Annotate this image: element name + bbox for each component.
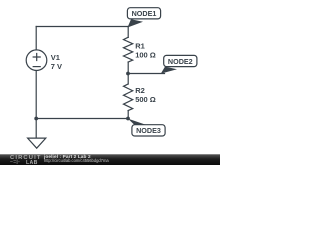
wire bottom horizontal: [36, 118, 128, 120]
V1 minus sign: [33, 66, 40, 68]
wire R2 to bottom rail: [127, 111, 129, 119]
svg-text:R1: R1: [135, 41, 145, 50]
junction ground node: [34, 117, 38, 121]
V1 plus sign: [33, 54, 40, 61]
wire left top (source to top rail): [35, 27, 37, 50]
svg-text:V1: V1: [51, 53, 60, 62]
watermark bar: [0, 154, 220, 165]
svg-text:NODE2: NODE2: [168, 57, 193, 66]
svg-text:500 Ω: 500 Ω: [135, 95, 156, 104]
svg-text:NODE3: NODE3: [136, 126, 161, 135]
credit line: [44, 154, 91, 159]
wire top horizontal: [36, 26, 128, 28]
ground: [28, 138, 46, 148]
voltage source V1: [26, 50, 47, 71]
junction node B (R2/bottom rail): [126, 117, 130, 121]
junction node A (R1/R2/NODE2): [126, 72, 130, 76]
CircuitLab logo: [10, 155, 42, 161]
url line: [44, 158, 109, 163]
wire node A down to R2: [127, 74, 129, 85]
resistor R2: [124, 84, 133, 111]
node NODE3 flag: [128, 119, 165, 136]
wire right top (NODE1 corner down to R1): [127, 27, 129, 38]
wire R1 to node A: [127, 62, 129, 73]
svg-text:R2: R2: [135, 86, 145, 95]
svg-text:100 Ω: 100 Ω: [135, 50, 156, 59]
resistor R1: [124, 37, 133, 62]
svg-text:NODE1: NODE1: [132, 9, 157, 18]
wire left bottom (source to ground rail): [35, 71, 37, 138]
wire node A to NODE2: [128, 73, 164, 75]
label V1 value: [51, 41, 156, 103]
svg-text:7 V: 7 V: [51, 62, 62, 71]
node NODE2 flag: [161, 55, 197, 73]
node NODE1 flag: [127, 8, 160, 28]
